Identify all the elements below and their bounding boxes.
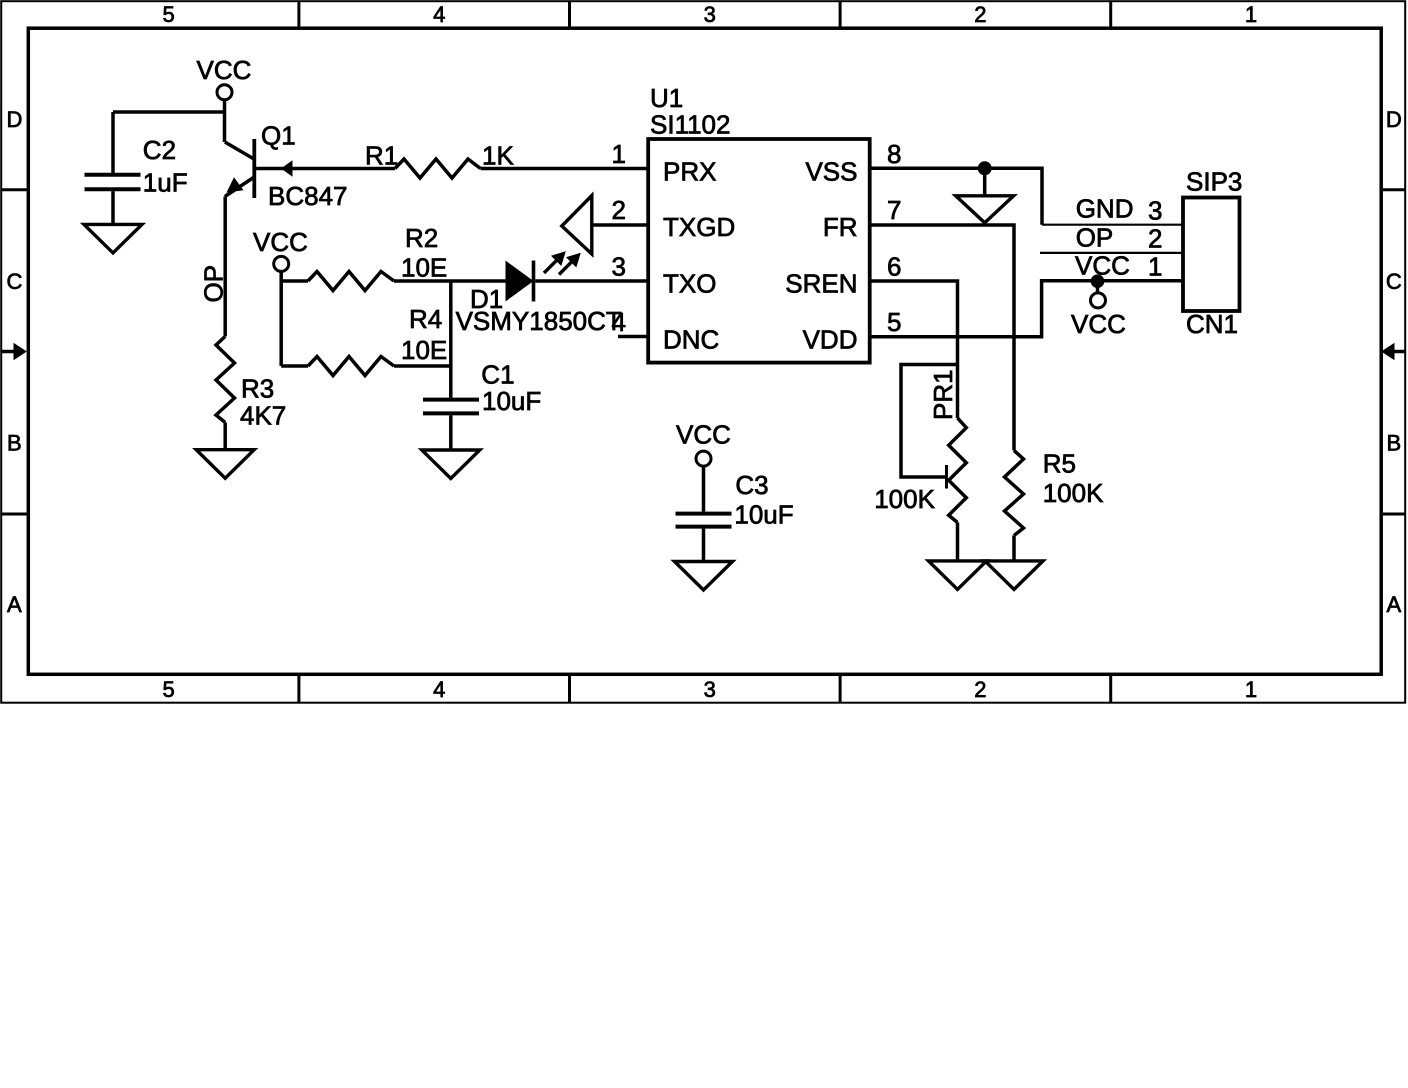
U1 pin numbers	[612, 139, 902, 337]
svg-text:VCC: VCC	[197, 55, 252, 85]
svg-text:PRX: PRX	[663, 157, 716, 187]
svg-text:B: B	[7, 431, 22, 456]
wire R1 to U1 pin 1	[481, 167, 648, 171]
svg-text:OP: OP	[1076, 223, 1114, 253]
svg-text:SIP3: SIP3	[1186, 167, 1242, 197]
U1 pin names	[663, 157, 858, 355]
resistor R3 4K7	[216, 336, 286, 430]
svg-text:C2: C2	[143, 135, 176, 165]
svg-text:4: 4	[612, 307, 626, 337]
svg-text:VCC: VCC	[676, 420, 731, 450]
power flag VCC (C3)	[676, 420, 731, 467]
ground (C2)	[84, 224, 142, 253]
svg-text:2: 2	[1148, 224, 1162, 254]
svg-text:100K: 100K	[874, 484, 935, 514]
svg-text:10E: 10E	[401, 253, 447, 283]
svg-text:B: B	[1386, 431, 1401, 456]
svg-text:TXGD: TXGD	[663, 212, 735, 242]
svg-text:4: 4	[433, 2, 445, 27]
wire VCC to C2 and Q1 collector	[113, 100, 225, 173]
trimmer PR1 100K	[874, 365, 966, 523]
svg-text:1: 1	[612, 139, 626, 169]
svg-text:100K: 100K	[1043, 478, 1104, 508]
wire U1 pin 8 VSS	[871, 168, 1042, 224]
svg-text:5: 5	[162, 2, 174, 27]
wire triangle to U1 pin 2	[592, 223, 647, 227]
transistor Q1 BC847	[225, 121, 348, 212]
resistor R1 1K	[365, 140, 514, 178]
svg-text:2: 2	[974, 2, 986, 27]
svg-text:10E: 10E	[401, 335, 447, 365]
ground (C3)	[675, 562, 733, 591]
wire C2 to ground	[111, 191, 115, 224]
svg-text:R2: R2	[405, 223, 438, 253]
arrow on base wire	[281, 160, 293, 177]
svg-text:R5: R5	[1043, 449, 1076, 479]
svg-text:1: 1	[1245, 677, 1257, 702]
svg-text:D: D	[1386, 107, 1402, 132]
svg-text:U1: U1	[650, 83, 683, 113]
svg-text:DNC: DNC	[663, 325, 719, 355]
svg-text:6: 6	[887, 252, 901, 282]
wire R2 to D1 anode	[394, 279, 506, 283]
junction dot (VSS)	[978, 161, 992, 175]
wire VCC to C3	[702, 466, 706, 512]
wire PR1 to ground	[956, 523, 960, 561]
TXGD emitter triangle	[562, 196, 592, 255]
svg-text:D: D	[6, 107, 22, 132]
svg-text:4K7: 4K7	[240, 401, 286, 431]
svg-text:PR1: PR1	[928, 369, 958, 420]
wire OP to CN1 pin 2	[1040, 252, 1183, 254]
wire C3 to ground	[702, 529, 706, 562]
svg-text:2: 2	[974, 677, 986, 702]
svg-text:R4: R4	[409, 304, 442, 334]
resistor R5 100K	[1005, 449, 1105, 536]
wire U1 pin 6 SREN to PR1	[871, 281, 958, 418]
ground (PR1)	[929, 561, 987, 590]
wire GND to CN1 pin 3	[1042, 224, 1183, 226]
svg-text:BC847: BC847	[268, 181, 348, 211]
svg-text:10uF: 10uF	[734, 499, 793, 529]
svg-text:2: 2	[612, 195, 626, 225]
wire C1 to ground	[449, 415, 453, 450]
svg-text:C: C	[1386, 269, 1402, 294]
capacitor C3 10uF	[676, 470, 794, 529]
ground (R5)	[985, 561, 1043, 590]
svg-text:SI1102: SI1102	[650, 110, 730, 140]
svg-text:VDD: VDD	[803, 325, 858, 355]
wire U1 pin 7 FR to R5	[871, 225, 1014, 450]
power flag VCC (Q1 collector)	[197, 55, 252, 100]
svg-text:VCC: VCC	[1075, 250, 1130, 280]
svg-text:FR: FR	[823, 212, 858, 242]
ground (R3)	[196, 450, 254, 479]
svg-text:3: 3	[704, 2, 716, 27]
svg-text:VCC: VCC	[253, 227, 308, 257]
CN1 pin numbers	[1148, 196, 1162, 282]
connector CN1 SIP3	[1183, 167, 1242, 340]
resistor R2 10E	[308, 223, 447, 291]
wire R4 to C1 junction	[394, 364, 451, 368]
svg-text:A: A	[7, 592, 22, 617]
wire R3 to ground	[223, 423, 227, 450]
power flag VCC (CN1)	[1071, 281, 1126, 339]
svg-text:1: 1	[1245, 2, 1257, 27]
svg-text:R1: R1	[365, 140, 398, 170]
svg-text:5: 5	[887, 307, 901, 337]
svg-text:1K: 1K	[482, 140, 514, 170]
ground (VSS)	[956, 196, 1014, 223]
capacitor C2	[85, 135, 188, 198]
LED D1 VSMY1850CT	[456, 251, 622, 336]
svg-text:R3: R3	[241, 374, 274, 404]
svg-text:C3: C3	[735, 470, 768, 500]
svg-text:SREN: SREN	[785, 269, 857, 299]
wire Q1 base to R1	[256, 167, 396, 171]
svg-text:GND: GND	[1076, 194, 1134, 224]
svg-text:3: 3	[1148, 196, 1162, 226]
svg-text:1uF: 1uF	[143, 168, 188, 198]
U1 pin 4 stub	[618, 335, 647, 339]
svg-text:C: C	[6, 269, 22, 294]
svg-text:3: 3	[612, 252, 626, 282]
op-amp U1 SI1102 (IC body)	[648, 83, 870, 363]
svg-text:A: A	[1386, 592, 1401, 617]
wire Q1 emitter to R3	[223, 197, 227, 337]
wire junction to C1	[449, 281, 453, 398]
svg-text:10uF: 10uF	[482, 386, 541, 416]
svg-text:VCC: VCC	[1071, 309, 1126, 339]
wire VCC to R2 and R4	[281, 271, 308, 366]
wire D1 cathode to U1 pin 3	[535, 279, 647, 283]
ground (C1)	[422, 450, 480, 479]
svg-text:4: 4	[433, 677, 445, 702]
svg-text:CN1: CN1	[1186, 309, 1238, 339]
junction dot (VCC)	[1091, 274, 1105, 288]
wire R5 to ground	[1012, 536, 1016, 561]
svg-text:5: 5	[162, 677, 174, 702]
wire U1 pin 5 VDD to CN1 pin 1	[871, 281, 1183, 337]
power flag VCC (R2/R4)	[253, 227, 308, 271]
svg-text:VSMY1850CT: VSMY1850CT	[456, 306, 622, 336]
svg-text:Q1: Q1	[261, 121, 296, 151]
svg-text:7: 7	[887, 195, 901, 225]
svg-text:8: 8	[887, 139, 901, 169]
svg-text:TXO: TXO	[663, 269, 716, 299]
svg-text:VSS: VSS	[805, 157, 857, 187]
resistor R4 10E	[308, 304, 447, 376]
svg-text:3: 3	[704, 677, 716, 702]
svg-text:1: 1	[1148, 251, 1162, 281]
capacitor C1 10uF	[423, 360, 541, 416]
wire VSS to ground	[983, 168, 987, 196]
